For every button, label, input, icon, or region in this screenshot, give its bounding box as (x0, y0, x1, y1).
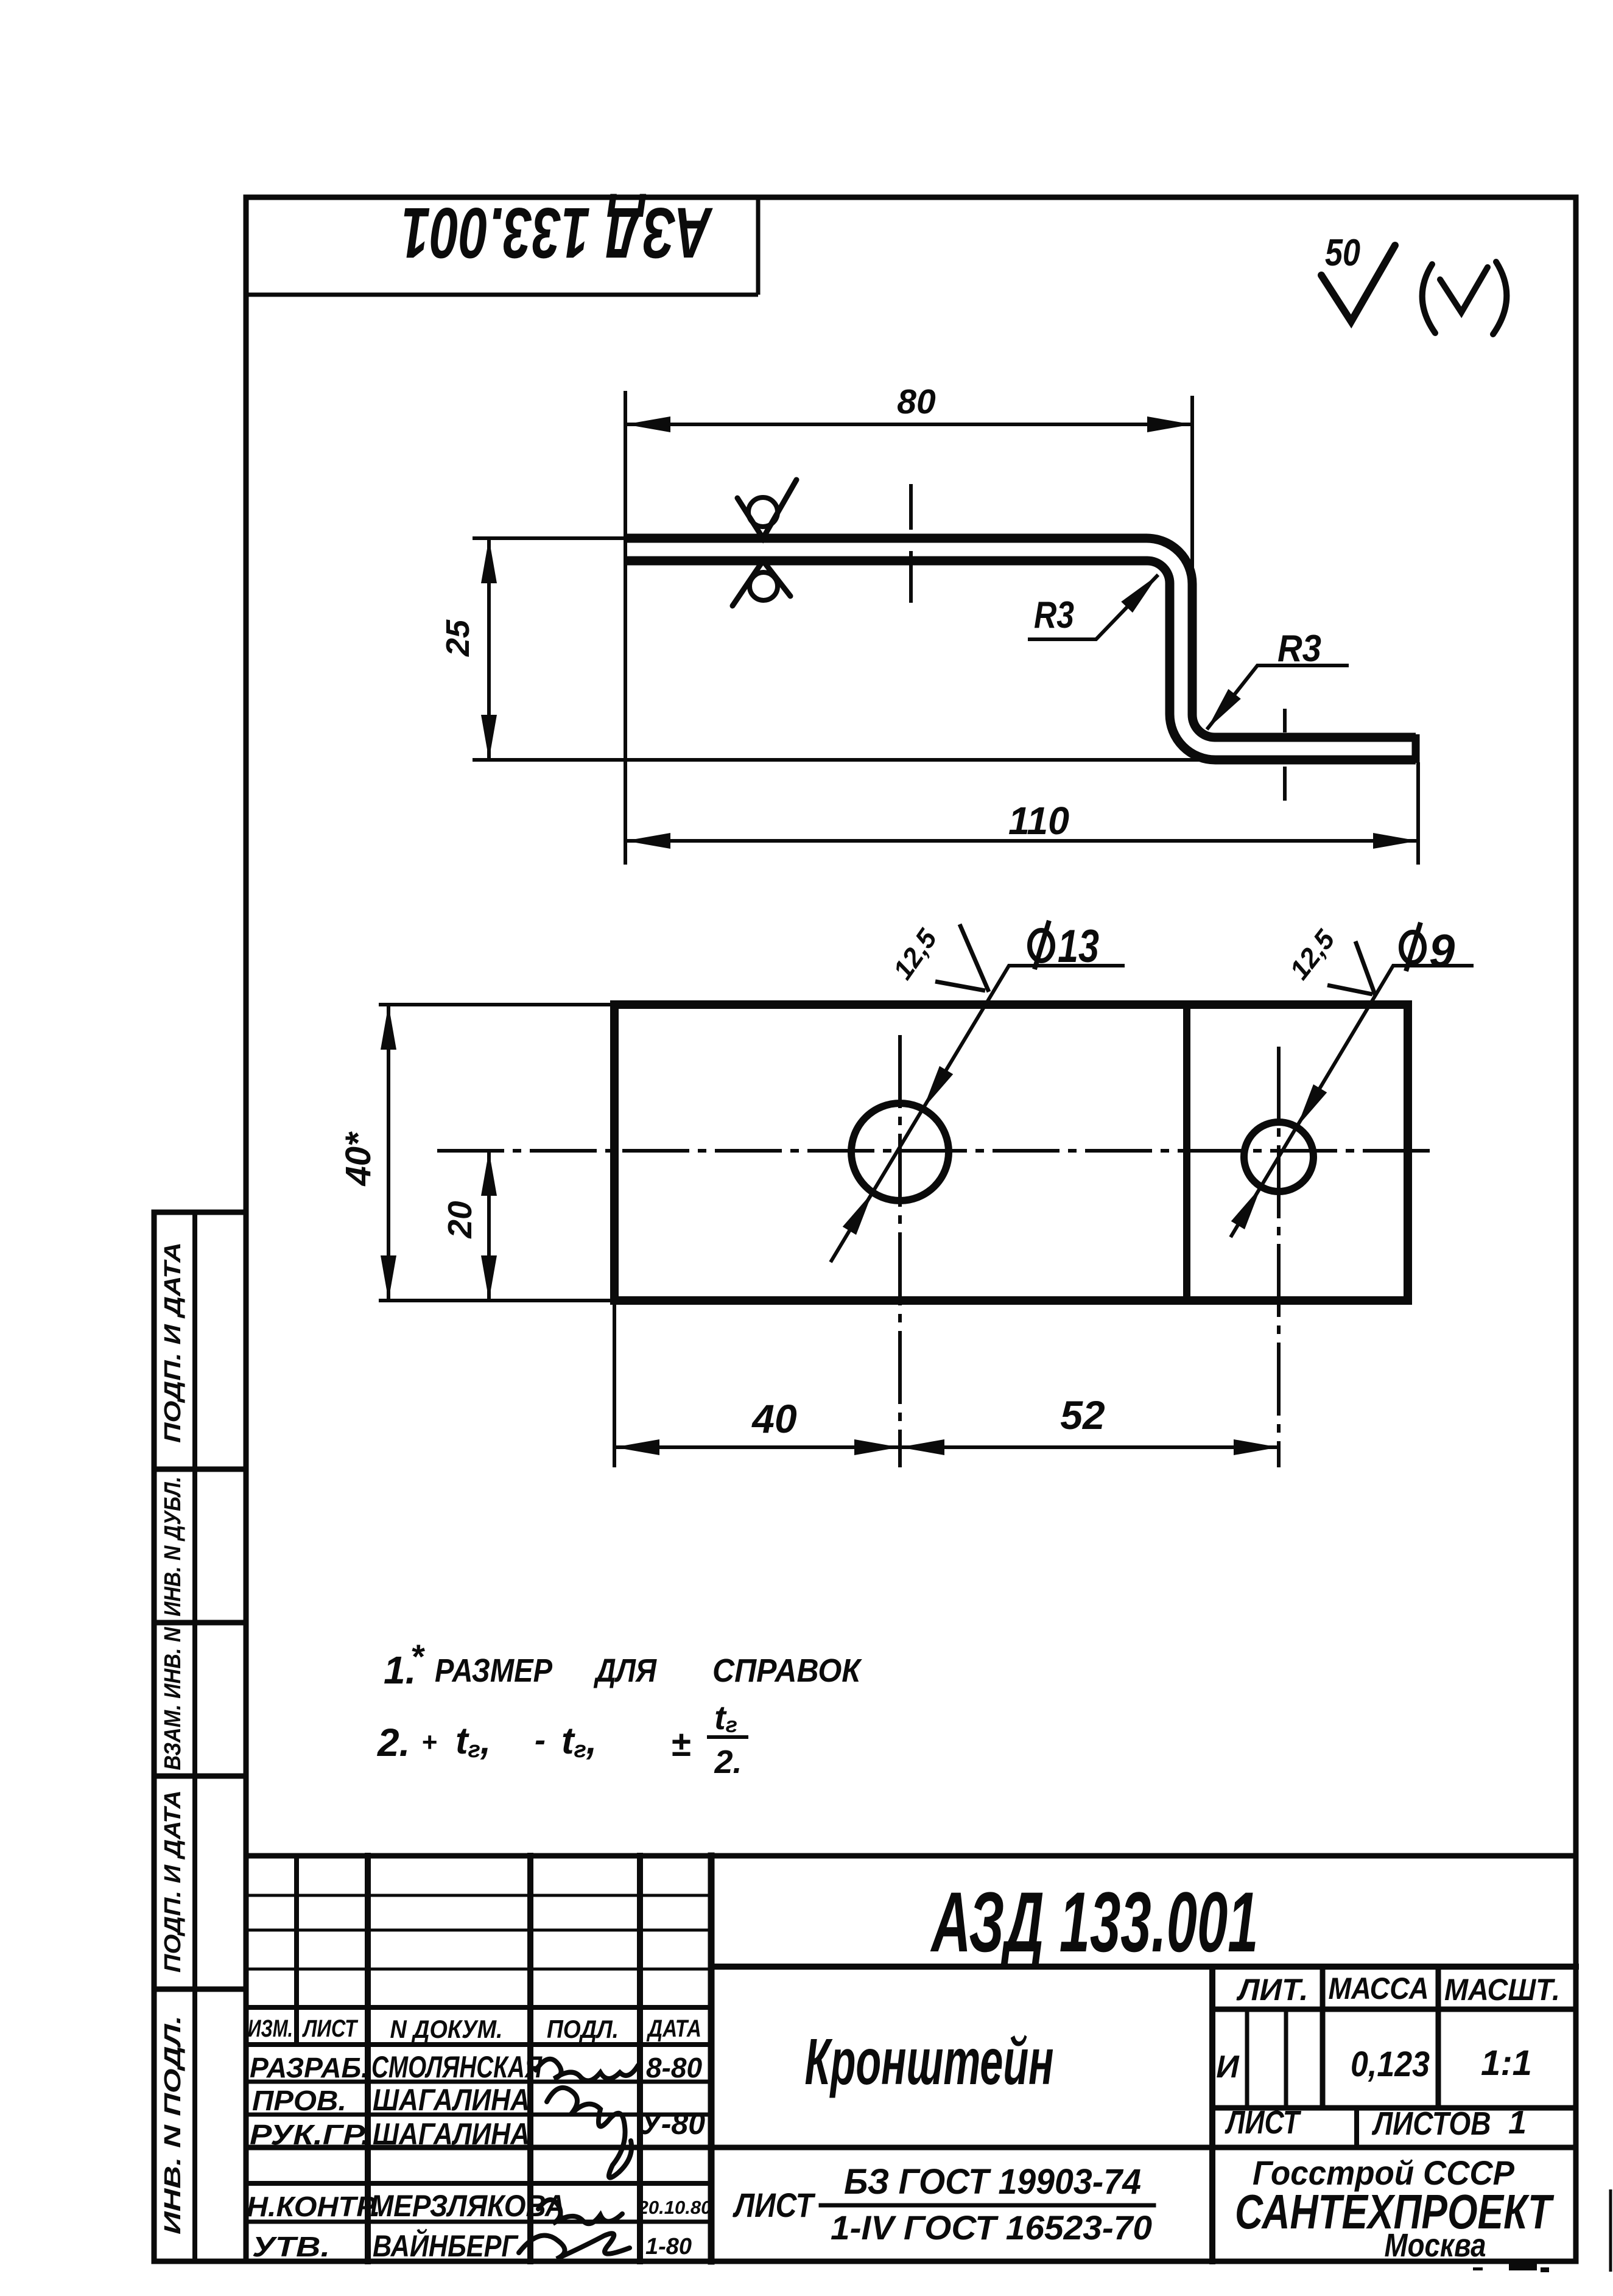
signatures (scribbles) (519, 2059, 638, 2259)
svg-text:±: ± (671, 1724, 691, 1764)
svg-text:40: 40 (751, 1396, 797, 1441)
R3 upper leader (1028, 575, 1158, 639)
centre tick bottom strip (1283, 709, 1287, 732)
svg-text:АЗД 133.001: АЗД 133.001 (401, 192, 713, 273)
svg-text:0,123: 0,123 (1351, 2045, 1430, 2084)
extension line right for 80 (1190, 396, 1194, 575)
svg-text:N ДОКУМ.: N ДОКУМ. (390, 2015, 503, 2043)
dimension line 40 / 52 (614, 1445, 1279, 1449)
svg-text:9: 9 (1429, 925, 1455, 977)
svg-text:50: 50 (1325, 232, 1360, 274)
svg-text:ПОДП. И ДАТА: ПОДП. И ДАТА (160, 1790, 186, 1973)
horizontal centreline (437, 1149, 1437, 1153)
arrows 40 and 52 (614, 1439, 659, 1455)
svg-text:ИНВ. N ДУБЛ.: ИНВ. N ДУБЛ. (160, 1476, 186, 1617)
svg-text:40*: 40* (339, 1131, 378, 1187)
bottom surface extension line (473, 758, 1214, 762)
leader hole d9 (1231, 966, 1474, 1237)
svg-text:1-80: 1-80 (645, 2234, 692, 2259)
svg-text:ПОДЛ.: ПОДЛ. (547, 2015, 619, 2043)
vertical centreline hole d9 (1277, 1047, 1281, 1467)
svg-text:ЛИСТ: ЛИСТ (302, 2015, 359, 2042)
arrows for 80 (625, 416, 670, 432)
drawing frame border (246, 197, 1576, 2261)
svg-text:1: 1 (1508, 2104, 1527, 2141)
leader hole d13 (831, 966, 1125, 1262)
svg-text:ВАЙНБЕРГ: ВАЙНБЕРГ (373, 2228, 519, 2263)
svg-text:8-80: 8-80 (646, 2052, 702, 2084)
extension line left (for 80 and 110) (624, 391, 627, 865)
svg-text:ЛИСТ: ЛИСТ (1225, 2104, 1302, 2141)
revision table thin rows (246, 1894, 711, 1897)
centre tick top strip (909, 484, 913, 530)
svg-text:СМОЛЯНСКАЯ: СМОЛЯНСКАЯ (371, 2050, 543, 2084)
svg-text:*: * (410, 1637, 425, 1676)
svg-text:13: 13 (1058, 921, 1099, 972)
R3 lower leader (1207, 665, 1349, 729)
svg-text:ШАГАЛИНА: ШАГАЛИНА (373, 2117, 530, 2151)
svg-text:У-80: У-80 (641, 2107, 705, 2141)
svg-text:R3: R3 (1034, 594, 1074, 636)
svg-text:ЛИСТОВ: ЛИСТОВ (1371, 2105, 1491, 2142)
svg-text:МАСШТ.: МАСШТ. (1444, 1973, 1560, 2007)
extension line right for 110 (1416, 762, 1420, 865)
svg-text:Москва: Москва (1385, 2227, 1486, 2264)
svg-text:ШАГАЛИНА: ШАГАЛИНА (373, 2083, 530, 2117)
dimension line 20 (487, 1151, 491, 1301)
arrows d13 leader (916, 1066, 953, 1113)
svg-text:РАЗМЕР: РАЗМЕР (435, 1652, 553, 1689)
svg-text:110: 110 (1008, 799, 1069, 843)
dimension line 40* (387, 1005, 390, 1301)
svg-text:52: 52 (1060, 1392, 1105, 1438)
svg-text:ПОДП. И ДАТА: ПОДП. И ДАТА (160, 1242, 186, 1443)
scan edge artifact right (1609, 2189, 1612, 2272)
svg-text:МЕРЗЛЯКОВА: МЕРЗЛЯКОВА (370, 2189, 565, 2223)
roughness tick d13 (960, 924, 989, 992)
dimension line 80 (625, 423, 1192, 426)
svg-text:ЛИСТ: ЛИСТ (733, 2186, 817, 2224)
svg-text:25: 25 (440, 619, 476, 657)
vertical centreline hole d13 (898, 1035, 902, 1467)
verticals of left part (294, 1856, 299, 2045)
svg-text:80: 80 (897, 382, 936, 421)
svg-text:+: + (421, 1727, 437, 1757)
top-left inverted doc-number box (246, 197, 758, 295)
no-machining symbol on top surface (733, 480, 796, 606)
svg-text:ДАТА: ДАТА (646, 2015, 701, 2042)
hole d13 (851, 1103, 949, 1201)
svg-text:ДЛЯ: ДЛЯ (594, 1652, 658, 1689)
svg-text:1-IV ГОСТ 16523-70: 1-IV ГОСТ 16523-70 (831, 2208, 1152, 2247)
svg-text:ИНВ. N ПОДЛ.: ИНВ. N ПОДЛ. (160, 2015, 186, 2235)
svg-text:УТВ.: УТВ. (252, 2231, 330, 2263)
svg-text:МАССА: МАССА (1329, 1971, 1429, 2006)
hole d9 (1244, 1122, 1313, 1192)
arrow R3 upper (1121, 569, 1164, 613)
arrow R3 lower (1201, 689, 1241, 734)
svg-text:2.: 2. (377, 1721, 410, 1764)
extension line for 25 top (473, 536, 625, 540)
svg-text:R3: R3 (1277, 628, 1321, 670)
svg-text:2.: 2. (714, 1744, 742, 1780)
roughness tick d9 (1355, 941, 1376, 996)
scan speckles below title block (1509, 2264, 1537, 2270)
svg-text:РУК.ГР.: РУК.ГР. (250, 2119, 370, 2150)
fraction bar in material cell (821, 2203, 1154, 2208)
svg-text:И: И (1216, 2049, 1240, 2085)
svg-text:-: - (535, 1722, 546, 1758)
svg-text:БЗ ГОСТ 19903-74: БЗ ГОСТ 19903-74 (844, 2162, 1141, 2202)
arrows for 110 (625, 833, 670, 849)
svg-text:ПРОВ.: ПРОВ. (252, 2085, 346, 2116)
no-machining symbol on bottom surface (733, 561, 790, 606)
arrows 20 (481, 1151, 497, 1196)
label phi13 (1030, 921, 1053, 969)
dimension line 25 (487, 538, 491, 760)
svg-text:Н.КОНТР.: Н.КОНТР. (247, 2191, 381, 2222)
bend line (1183, 1005, 1190, 1301)
svg-text:1:1: 1:1 (1481, 2043, 1532, 2083)
label phi9 (1401, 922, 1424, 971)
profile outline upper surface (625, 538, 1416, 737)
svg-text:20: 20 (441, 1201, 479, 1239)
svg-text:Кронштейн: Кронштейн (805, 2024, 1054, 2098)
svg-text:ВЗАМ. ИНВ. N: ВЗАМ. ИНВ. N (160, 1626, 186, 1770)
right section lines (711, 1964, 1576, 1970)
svg-text:20.10.80: 20.10.80 (638, 2197, 712, 2218)
svg-text:ЛИТ.: ЛИТ. (1236, 1973, 1308, 2007)
svg-text:СПРАВОК: СПРАВОК (712, 1652, 863, 1689)
extension below left edge (613, 1301, 616, 1467)
svg-text:ИЗМ.: ИЗМ. (248, 2015, 293, 2042)
extension lines 40* (379, 1003, 614, 1006)
arrows 40* (381, 1005, 396, 1050)
plate outline (614, 1005, 1408, 1301)
arrows for 25 (481, 538, 497, 583)
profile right end cap (1412, 734, 1420, 763)
arrows d9 leader (1290, 1084, 1327, 1131)
svg-text:РАЗРАБ.: РАЗРАБ. (250, 2052, 369, 2084)
header row line (246, 2005, 711, 2010)
svg-text:АЗД 133.001: АЗД 133.001 (930, 1874, 1259, 1970)
dimension line 110 (625, 839, 1418, 843)
profile outline lower surface (625, 561, 1416, 760)
title block top border (246, 1853, 1576, 1859)
